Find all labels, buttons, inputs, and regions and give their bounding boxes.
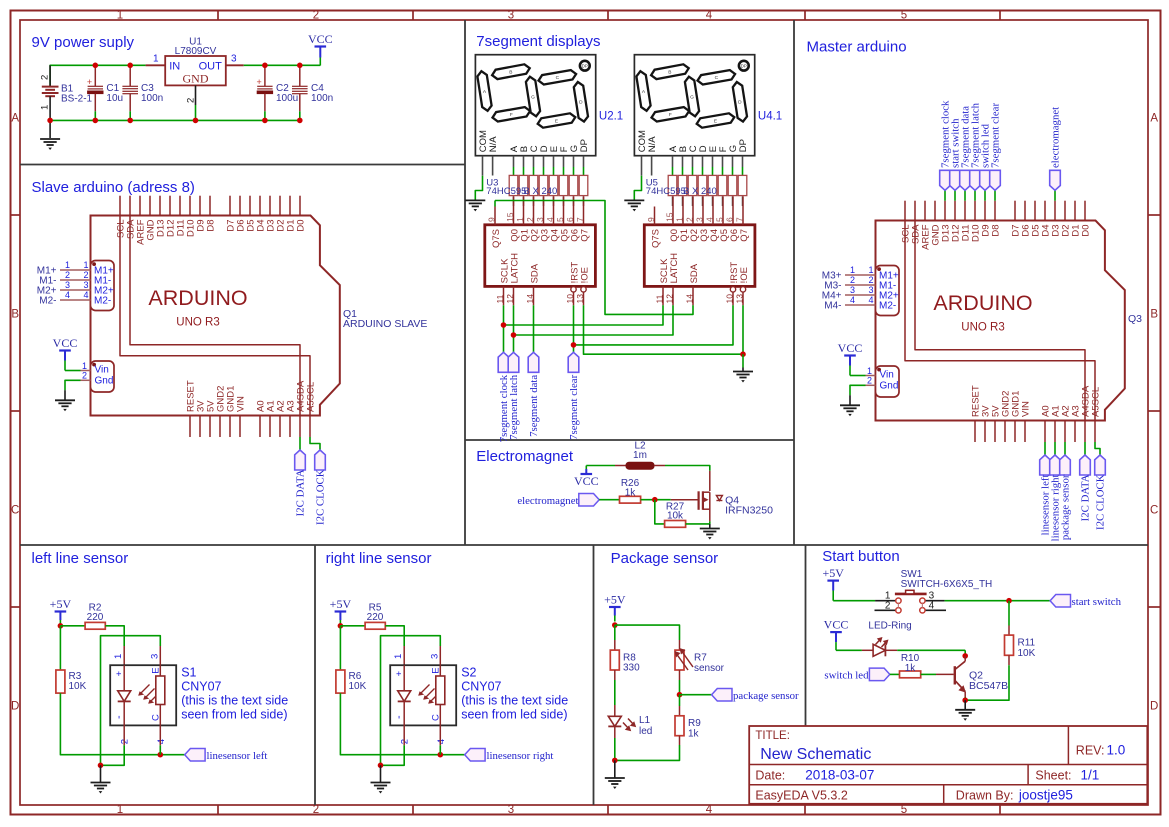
svg-text:+5V: +5V: [822, 566, 844, 580]
svg-text:VCC: VCC: [824, 617, 849, 631]
svg-text:2: 2: [82, 371, 87, 381]
svg-text:B: B: [668, 70, 671, 76]
wire flag package sensor: [1064, 442, 1066, 455]
svg-text:F: F: [669, 112, 672, 118]
wire pin3 U1: [226, 64, 244, 66]
phototransistor inside S2: [430, 665, 445, 725]
svg-text:OUT: OUT: [199, 60, 223, 72]
IC box U5: [644, 225, 755, 287]
wire flag 7segment latch: [974, 190, 976, 200]
wire internal SCL to A5: [905, 221, 1095, 421]
svg-text:UNO R3: UNO R3: [176, 317, 219, 329]
7seg DP dot U2.1: [580, 61, 590, 71]
net flag 7segment clock: [498, 352, 509, 372]
wire R11 to emitter: [1008, 655, 1010, 665]
IC pin 9 Q7S U3: [494, 207, 496, 225]
arduino bottom pins Q1: [186, 380, 317, 437]
wire Q7S U3 to SDA U5: [494, 201, 496, 207]
junction output: [158, 752, 164, 758]
svg-text:1: 1: [39, 105, 50, 110]
svg-text:sensor: sensor: [694, 663, 725, 674]
svg-text:C: C: [556, 75, 560, 81]
svg-text:R7: R7: [694, 653, 707, 664]
svg-text:14: 14: [684, 294, 694, 304]
wire emitter to ground: [964, 697, 966, 700]
svg-text:VCC: VCC: [308, 32, 333, 46]
capacitor C4: [292, 65, 308, 120]
light arrows S1: [138, 685, 159, 704]
svg-text:3: 3: [65, 280, 70, 290]
wire M2-: [60, 299, 91, 301]
svg-text:7: 7: [575, 217, 585, 222]
svg-text:DP: DP: [741, 64, 747, 69]
light arrows S2: [418, 685, 439, 704]
svg-text:C: C: [11, 505, 19, 517]
junction SCLK: [501, 322, 507, 328]
net flag switch led: [869, 668, 889, 681]
svg-text:3: 3: [694, 217, 704, 222]
net flag 7segment data: [960, 170, 971, 190]
wire flag start switch: [954, 190, 956, 200]
svg-text:M2-: M2-: [879, 301, 896, 312]
svg-text:LED-Ring: LED-Ring: [868, 620, 911, 631]
svg-text:2018-03-07: 2018-03-07: [805, 768, 874, 783]
svg-text:Drawn By:: Drawn By:: [956, 788, 1014, 802]
svg-text:3: 3: [535, 217, 545, 222]
wire out rail: [244, 64, 321, 66]
svg-text:4: 4: [706, 804, 713, 816]
junction dots top rail: [93, 63, 99, 69]
svg-text:2: 2: [525, 217, 535, 222]
resistor R10: [900, 671, 921, 678]
svg-text:2: 2: [867, 376, 872, 386]
svg-text:220: 220: [87, 612, 104, 623]
net flag 7segment clock: [940, 170, 951, 190]
wire pin3 E: [159, 646, 161, 665]
svg-text:Date:: Date:: [755, 769, 785, 783]
wire OE chain: [584, 305, 744, 354]
svg-text:seen from led side): seen from led side): [181, 708, 287, 722]
wire flag 7segment clear: [994, 190, 996, 200]
wire flag switch led: [984, 190, 986, 200]
wire +5V to R2: [60, 625, 85, 627]
svg-text:3: 3: [508, 10, 514, 22]
svg-text:G: G: [690, 94, 694, 100]
net flag I2C DATA: [1080, 455, 1091, 475]
resistor R27: [665, 521, 686, 528]
svg-text:12: 12: [664, 294, 674, 304]
svg-text:G: G: [531, 94, 535, 100]
wire flag I2C DATA: [1084, 442, 1086, 455]
svg-text:1: 1: [850, 265, 855, 275]
svg-text:start switch: start switch: [1072, 596, 1122, 608]
svg-text:3: 3: [868, 285, 873, 295]
wire bottom rail: [50, 119, 300, 121]
svg-text:5: 5: [901, 10, 907, 22]
svg-text:!OE: !OE: [579, 267, 590, 283]
net flag linesensor left: [185, 748, 205, 761]
svg-text:Gnd: Gnd: [95, 376, 114, 387]
svg-text:DP: DP: [738, 139, 749, 152]
svg-text:D0: D0: [1081, 225, 1092, 237]
resistor R2: [85, 622, 105, 629]
junction R26 R27: [652, 497, 658, 503]
svg-text:9: 9: [646, 217, 656, 222]
wire flag to R10: [890, 673, 900, 675]
LED inside S2: [393, 665, 411, 725]
LED inside S1: [113, 665, 131, 725]
svg-text:SDA: SDA: [689, 263, 700, 283]
net flag 7segment data: [528, 352, 539, 372]
svg-text:13: 13: [734, 294, 744, 304]
svg-text:1: 1: [117, 10, 123, 22]
svg-text:6: 6: [724, 217, 734, 222]
wire source to ground: [709, 521, 711, 524]
svg-text:3: 3: [149, 654, 160, 659]
svg-text:Master arduino: Master arduino: [807, 39, 907, 56]
svg-text:D0: D0: [296, 220, 307, 232]
junction output: [438, 752, 444, 758]
junction emitter: [962, 697, 968, 703]
net flag I2C CLOCK: [1095, 455, 1106, 475]
ground B1: [49, 120, 51, 138]
svg-text:Q3: Q3: [1128, 313, 1142, 325]
ground right line sensor: [380, 765, 382, 782]
resistor R8: [610, 650, 619, 670]
transistor Q2: [955, 656, 966, 697]
net flag start switch: [1050, 594, 1070, 607]
wire RST chain: [573, 305, 575, 353]
wire pin3 E: [439, 646, 441, 665]
svg-text:Vin: Vin: [95, 365, 109, 376]
wire +5V to R3: [59, 626, 61, 670]
wire VCC to LED: [836, 649, 862, 651]
svg-text:74HC595: 74HC595: [486, 186, 526, 197]
svg-text:100n: 100n: [141, 93, 163, 104]
svg-text:10K: 10K: [1018, 648, 1036, 659]
phototransistor inside S1: [150, 665, 165, 725]
svg-text:10u: 10u: [106, 93, 123, 104]
7seg pin names U2.1: [478, 130, 590, 152]
svg-text:VCC: VCC: [838, 341, 863, 355]
wire VCC to Vin: [65, 370, 81, 372]
svg-text:C: C: [430, 714, 441, 721]
wire VCC to Vin: [850, 375, 866, 377]
wire +5V to R5: [340, 625, 365, 627]
svg-text:A5SCL: A5SCL: [1091, 387, 1102, 417]
net flag package sensor: [1060, 455, 1071, 475]
svg-text:7: 7: [734, 217, 744, 222]
7seg segment pins U4.1: [673, 156, 743, 176]
ground Q4 source: [700, 528, 720, 530]
svg-text:Q7S: Q7S: [650, 229, 661, 248]
wire Gnd down: [866, 384, 876, 386]
IC bottom pins U3: [495, 253, 591, 305]
resistor R7 sensor: [675, 650, 684, 670]
net flag switch led: [980, 170, 991, 190]
svg-text:Start button: Start button: [822, 548, 900, 565]
wire L1 to ground node: [614, 738, 616, 760]
svg-text:E: E: [714, 118, 717, 124]
switch SW1: [875, 590, 947, 613]
svg-text:LATCH: LATCH: [669, 253, 680, 284]
wire LED to collector: [897, 649, 965, 651]
svg-text:CNY07: CNY07: [461, 680, 501, 694]
svg-text:L7809CV: L7809CV: [175, 46, 217, 57]
7seg pin N/A U4.1: [651, 156, 653, 176]
svg-text:left line sensor: left line sensor: [32, 550, 129, 567]
svg-text:6: 6: [565, 217, 575, 222]
capacitor C3: [122, 65, 138, 120]
svg-text:15: 15: [664, 212, 674, 222]
svg-text:M2-: M2-: [39, 296, 56, 307]
svg-text:-: -: [393, 715, 405, 719]
connector M1-M2 Q1: [91, 261, 115, 311]
svg-text:+: +: [87, 77, 92, 87]
net flag 7segment clear: [568, 352, 579, 372]
svg-text:D: D: [579, 100, 583, 106]
junction dots bottom rail: [47, 118, 53, 124]
svg-text:2: 2: [684, 217, 694, 222]
wire R5 to pin1: [385, 626, 404, 646]
svg-text:U4.1: U4.1: [758, 111, 782, 123]
svg-text:B X 240: B X 240: [683, 186, 717, 197]
ground U2.1 COM: [465, 199, 485, 201]
7seg display box U2.1: [475, 55, 595, 156]
svg-text:+5V: +5V: [50, 597, 72, 611]
svg-text:5: 5: [714, 217, 724, 222]
svg-text:right line sensor: right line sensor: [326, 550, 432, 567]
svg-text:2: 2: [83, 270, 88, 280]
svg-text:12: 12: [505, 294, 515, 304]
svg-text:electromagnet: electromagnet: [1050, 107, 1062, 168]
svg-text:I2C CLOCK: I2C CLOCK: [315, 469, 327, 525]
svg-text:electromagnet: electromagnet: [517, 495, 578, 507]
junction RST: [571, 342, 577, 348]
svg-text:+: +: [256, 77, 261, 87]
svg-text:Q7: Q7: [579, 229, 590, 242]
svg-text:7segment displays: 7segment displays: [476, 33, 600, 50]
svg-text:seen from led side): seen from led side): [461, 708, 567, 722]
svg-text:1: 1: [393, 654, 404, 659]
wire top rail: [50, 65, 146, 86]
svg-text:1: 1: [65, 260, 70, 270]
7seg segment pins U2.1: [514, 156, 584, 176]
arduino top pins Q3: [901, 201, 1092, 250]
svg-text:D: D: [1150, 701, 1158, 713]
svg-text:A: A: [1150, 113, 1158, 125]
resistor R5: [365, 622, 385, 629]
wire flag to R26: [599, 499, 619, 501]
svg-text:New Schematic: New Schematic: [760, 746, 871, 763]
svg-text:D8: D8: [991, 225, 1002, 237]
svg-text:Q7S: Q7S: [491, 229, 502, 248]
7seg pin N/A U2.1: [492, 156, 494, 176]
battery B1: [39, 65, 58, 120]
svg-text:B: B: [509, 70, 512, 76]
junction +5V package: [612, 622, 618, 628]
wire node to R9: [679, 695, 681, 706]
wire M3-: [845, 284, 876, 286]
wire R9 to bottom: [679, 736, 681, 745]
svg-text:7segment data: 7segment data: [528, 375, 540, 437]
junction +5V: [58, 623, 64, 629]
resistor R6: [336, 670, 345, 693]
wire SCLK chain: [503, 305, 505, 353]
wire node to flag: [680, 694, 712, 696]
svg-text:7segment latch: 7segment latch: [508, 374, 520, 440]
svg-text:Q7: Q7: [739, 229, 750, 242]
svg-text:C: C: [715, 75, 719, 81]
wire U1 pin2 gnd: [195, 85, 197, 105]
svg-text:I2C CLOCK: I2C CLOCK: [1095, 474, 1107, 530]
wire +5V to R7: [615, 625, 680, 640]
svg-text:1.0: 1.0: [1107, 743, 1126, 758]
svg-text:2: 2: [868, 275, 873, 285]
resistor R3: [56, 670, 65, 693]
svg-text:D: D: [738, 100, 742, 106]
svg-text:4: 4: [850, 295, 855, 305]
arduino body Q1: [91, 216, 340, 416]
optocoupler S2 box: [390, 665, 456, 725]
IC box U3: [485, 225, 596, 287]
svg-text:1: 1: [515, 217, 525, 222]
wire +5V to R8: [614, 625, 616, 640]
net flag electromagnet: [1050, 170, 1061, 190]
wire R10 to base: [921, 673, 936, 675]
wire M3+: [845, 274, 876, 276]
svg-text:IN: IN: [169, 60, 180, 72]
svg-text:DP: DP: [579, 139, 590, 152]
svg-text:VIN: VIN: [1021, 401, 1032, 417]
svg-text:1: 1: [113, 654, 124, 659]
svg-text:REV:: REV:: [1076, 744, 1105, 758]
svg-text:4: 4: [156, 739, 167, 744]
svg-text:VIN: VIN: [236, 396, 247, 412]
svg-text:7segment clear: 7segment clear: [990, 103, 1002, 168]
svg-text:DP: DP: [582, 64, 588, 69]
svg-text:ARDUINO: ARDUINO: [148, 286, 247, 310]
svg-text:D8: D8: [206, 220, 217, 232]
svg-text:1: 1: [117, 804, 123, 816]
svg-text:1m: 1m: [633, 450, 647, 461]
ground below VCC: [64, 390, 66, 400]
7seg segments U4.1: [636, 64, 747, 127]
svg-text:3: 3: [83, 280, 88, 290]
optocoupler S1 box: [110, 665, 176, 725]
svg-text:2: 2: [65, 270, 70, 280]
diode LED-Ring: [873, 637, 897, 656]
junction collector: [962, 653, 968, 659]
svg-text:1k: 1k: [688, 729, 700, 740]
wire pin2 down: [403, 725, 405, 745]
svg-text:4: 4: [65, 290, 70, 300]
ground OE: [733, 371, 753, 373]
svg-text:VCC: VCC: [574, 474, 599, 488]
wire pin4 to output: [439, 725, 441, 745]
svg-text:1: 1: [674, 217, 684, 222]
resistor R26: [620, 496, 641, 503]
svg-text:2: 2: [39, 75, 50, 80]
svg-text:4: 4: [436, 739, 447, 744]
net flag 7segment latch: [508, 352, 519, 372]
svg-text:SDA: SDA: [529, 263, 540, 283]
svg-text:!OE: !OE: [739, 267, 750, 283]
svg-text:ARDUINO SLAVE: ARDUINO SLAVE: [343, 318, 427, 330]
connector M1-M2 Q3: [876, 266, 900, 316]
junction LATCH: [511, 332, 517, 338]
svg-text:+5V: +5V: [604, 593, 626, 607]
svg-text:3: 3: [231, 54, 237, 65]
svg-text:Sheet:: Sheet:: [1035, 769, 1071, 783]
svg-text:C: C: [1150, 505, 1158, 517]
svg-text:A: A: [11, 113, 19, 125]
svg-text:4: 4: [704, 217, 714, 222]
wire M1+: [60, 269, 91, 271]
wire R7 to node: [679, 670, 681, 680]
wire pin2 down: [123, 725, 125, 745]
inductor L2: [626, 462, 654, 469]
svg-text:LATCH: LATCH: [509, 253, 520, 284]
svg-text:220: 220: [367, 612, 384, 623]
wire R8 to LED L1: [614, 670, 616, 680]
wire flag linesensor left: [1044, 442, 1046, 455]
wire R3 to output: [60, 693, 184, 755]
svg-text:M2-: M2-: [94, 296, 111, 307]
svg-text:5: 5: [901, 804, 907, 816]
wire M4-: [845, 304, 876, 306]
svg-text:4: 4: [706, 10, 713, 22]
7seg segments U2.1: [477, 64, 588, 127]
svg-text:UNO R3: UNO R3: [961, 322, 1004, 334]
svg-text:N/A: N/A: [647, 136, 658, 153]
7seg display box U4.1: [634, 55, 754, 156]
IC bottom pins U5: [654, 253, 750, 305]
net flag linesensor right: [465, 748, 485, 761]
svg-text:R9: R9: [688, 718, 701, 729]
svg-text:Package sensor: Package sensor: [611, 550, 719, 567]
svg-text:4: 4: [545, 217, 555, 222]
diode L1 led: [608, 716, 636, 738]
7seg pin names U4.1: [637, 130, 749, 152]
junction package ground: [612, 758, 618, 764]
wire flag 7segment clock: [944, 190, 946, 200]
wire M4+: [845, 294, 876, 296]
svg-text:GND: GND: [183, 72, 209, 86]
net flag 7segment clear: [990, 170, 1001, 190]
svg-text:C: C: [150, 714, 161, 721]
svg-text:330: 330: [623, 663, 640, 674]
net flag start switch: [950, 170, 961, 190]
wire SDA U3 to flag: [533, 305, 535, 353]
svg-text:1: 1: [153, 54, 159, 65]
wire internal SCL to A5: [120, 216, 310, 416]
wire internal SDA to A4: [130, 216, 300, 416]
svg-text:Vin: Vin: [880, 370, 894, 381]
arduino bottom pins Q3: [971, 385, 1102, 442]
svg-text:S2: S2: [461, 666, 476, 680]
wire SW1 to start switch: [945, 600, 1051, 602]
junction start switch: [1006, 598, 1012, 604]
svg-text:BS-2-1: BS-2-1: [61, 94, 93, 105]
net flag package sensor: [712, 688, 732, 701]
wire VCC to L2: [586, 465, 615, 467]
svg-text:-: -: [113, 715, 125, 719]
svg-text:ARDUINO: ARDUINO: [933, 291, 1032, 315]
IC top pins Q0-Q7 U5: [664, 196, 750, 241]
wire pin1 U1: [146, 64, 166, 66]
ground left line sensor: [100, 765, 102, 782]
